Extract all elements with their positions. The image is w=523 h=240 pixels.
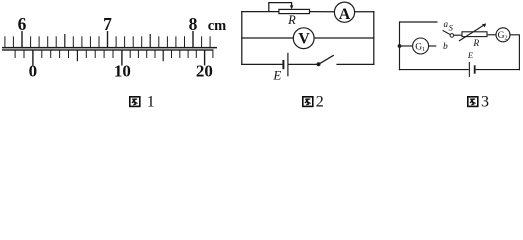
svg-text:R: R [287,13,296,27]
svg-text:E: E [272,67,281,82]
battery E (fig2): short thick plate [282,60,284,69]
bottom ruler ticks (0-20 scale) [15,50,213,65]
wire junction to G1 [400,45,413,47]
fig2 bottom rail wire left segment [241,63,282,65]
battery E (fig2): long thin plate [287,53,288,77]
galvanometer G2 [496,28,510,42]
fig2 middle rail wire right segment [314,37,374,39]
fig3 top rail wire [399,21,438,23]
svg-text:3: 3 [481,94,489,111]
svg-text:10: 10 [114,62,131,81]
rheostat R box (fig3) [462,32,487,37]
rheostat slider wire with arrow [269,3,292,12]
fig2 top rail wire right segment [355,11,375,13]
switch lever (fig3) [443,30,451,34]
svg-text:V: V [298,30,310,47]
svg-text:E: E [467,50,474,60]
ammeter A [334,2,354,22]
switch pivot dot (fig2) [317,62,321,66]
battery (fig3): short thick plate [474,65,476,73]
top ruler (cm scale) ticks [5,31,210,48]
fig3 right rail wire [518,35,520,71]
svg-text:1: 1 [147,94,155,111]
svg-text:0: 0 [29,62,38,81]
rheostat R box [279,9,310,13]
fig2 top rail wire left segment [241,11,279,13]
rheostat diagonal arrow (fig3) [459,25,484,41]
fig3 bottom rail wire right segment [476,69,520,71]
fig3 bottom rail wire left segment [399,69,469,71]
svg-text:2: 2 [316,94,324,111]
bottom ruler top edge line [2,49,214,50]
galvanometer G1 [413,38,429,54]
fig2 bottom rail wire middle segment [289,63,318,65]
svg-text:R: R [472,39,479,49]
wire pivot to R [454,34,463,36]
caption 图 3 [468,97,478,107]
wire R to G2 [487,34,496,36]
ruler numbers 6 7 8 cm [18,14,227,34]
fig2 bottom rail wire right segment [336,63,374,65]
fig3 left rail wire [399,22,401,71]
fig2 top rail wire middle segment [310,11,335,13]
fig2 left rail wire [241,11,243,65]
svg-text:A: A [339,6,351,23]
voltmeter V [293,28,314,49]
caption 图 1 [130,97,140,107]
switch pivot circle (fig3) [450,34,454,38]
wire G1 to contact b [429,45,437,47]
svg-text:cm: cm [208,18,227,34]
bottom ruler numbers 0 10 20 [29,62,213,81]
svg-text:S: S [449,22,454,32]
fig2 right rail wire [373,11,375,65]
svg-text:b: b [443,42,448,52]
fig2 middle rail wire left segment [241,37,293,39]
caption 图 2 [303,97,313,107]
svg-text:20: 20 [196,62,213,81]
junction dot on left rail [398,44,402,48]
top ruler baseline [2,47,217,49]
switch lever (fig2) [319,55,334,64]
battery (fig3): long thin plate [469,62,470,77]
wire G2 to right rail [510,34,520,36]
